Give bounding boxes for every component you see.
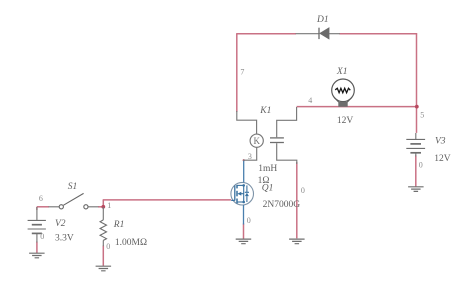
svg-text:0: 0 (301, 186, 305, 195)
svg-text:12V: 12V (434, 154, 451, 164)
svg-text:0: 0 (247, 216, 251, 225)
svg-text:3.3V: 3.3V (55, 234, 74, 244)
svg-text:0: 0 (419, 161, 423, 170)
svg-text:0: 0 (40, 232, 44, 241)
svg-text:S1: S1 (68, 182, 78, 192)
svg-text:X1: X1 (336, 67, 348, 77)
svg-text:5: 5 (420, 111, 424, 120)
svg-text:V2: V2 (55, 219, 66, 229)
svg-text:7: 7 (240, 68, 244, 77)
svg-text:V3: V3 (435, 137, 446, 147)
svg-text:1: 1 (107, 201, 111, 210)
svg-text:K: K (253, 136, 260, 146)
svg-text:1Ω: 1Ω (258, 176, 270, 186)
svg-text:4: 4 (308, 96, 312, 105)
svg-text:K1: K1 (259, 106, 271, 116)
svg-text:1mH: 1mH (258, 164, 277, 174)
svg-text:6: 6 (39, 194, 43, 203)
svg-text:3: 3 (248, 152, 252, 161)
svg-text:0: 0 (106, 242, 110, 251)
svg-text:1.00MΩ: 1.00MΩ (115, 238, 147, 248)
svg-text:12V: 12V (337, 116, 354, 126)
svg-text:R1: R1 (113, 220, 125, 230)
svg-text:D1: D1 (316, 15, 329, 25)
svg-text:2N7000G: 2N7000G (263, 200, 301, 210)
